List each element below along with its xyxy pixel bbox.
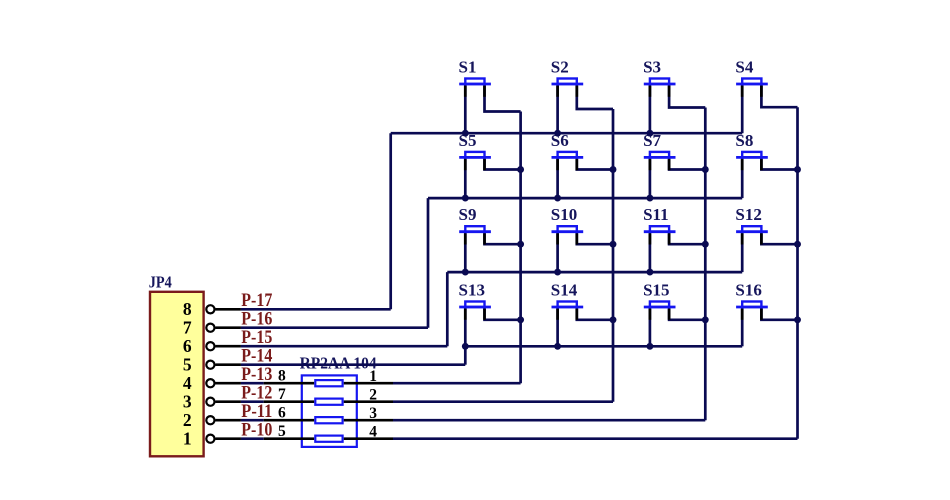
svg-text:2: 2: [183, 410, 192, 430]
svg-text:S11: S11: [643, 205, 669, 224]
svg-text:1: 1: [183, 428, 192, 448]
svg-text:S15: S15: [643, 281, 669, 300]
svg-text:S3: S3: [643, 58, 661, 77]
svg-text:S4: S4: [735, 58, 753, 77]
svg-text:7: 7: [183, 317, 192, 337]
svg-text:S14: S14: [551, 281, 578, 300]
svg-text:S13: S13: [459, 281, 485, 300]
svg-text:5: 5: [183, 354, 192, 374]
svg-text:S9: S9: [459, 205, 477, 224]
svg-text:S2: S2: [551, 58, 569, 77]
svg-text:S16: S16: [735, 281, 761, 300]
svg-text:S1: S1: [459, 58, 477, 77]
svg-text:4: 4: [183, 373, 192, 393]
svg-text:JP4: JP4: [149, 272, 172, 291]
svg-text:8: 8: [183, 299, 192, 319]
svg-text:S12: S12: [735, 205, 761, 224]
svg-text:3: 3: [183, 391, 192, 411]
svg-text:RP2AA 104: RP2AA 104: [300, 354, 377, 373]
svg-text:S10: S10: [551, 205, 577, 224]
svg-text:6: 6: [183, 336, 192, 356]
